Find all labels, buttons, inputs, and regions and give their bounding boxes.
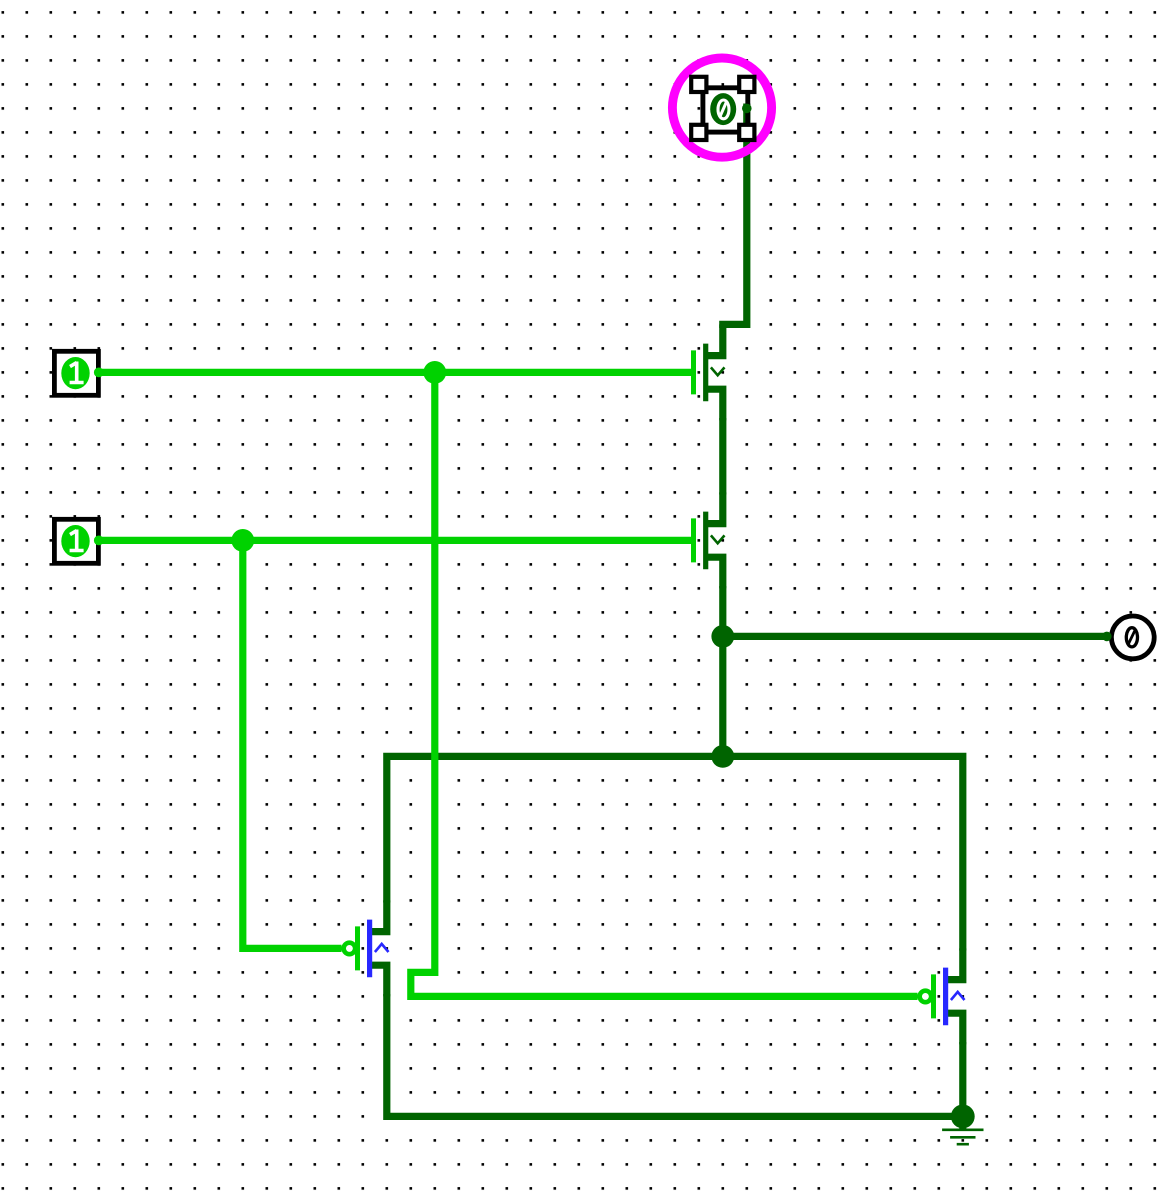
power component pin dot	[742, 104, 752, 114]
power component corner pad bottom-right	[739, 125, 754, 140]
wire input B to T2 gate (value 1, bright green)	[99, 537, 692, 544]
wire T3 drain leg corner	[370, 965, 387, 996]
power component corner pad top-left	[691, 77, 706, 92]
input pin B square	[54, 519, 98, 563]
halo around selected power component	[672, 58, 771, 157]
transistor Q1 channel plate	[703, 344, 708, 402]
wire T2 drain down through output node to lower node	[719, 586, 726, 756]
junction node B on input B wire	[231, 529, 254, 552]
wire output node to output pin	[723, 633, 1107, 640]
input pin A glyph 1	[70, 362, 84, 383]
wire from node A down and across to T4 gate	[411, 372, 918, 996]
transistor Q2 channel plate	[703, 512, 708, 570]
power component value glyph 0	[718, 100, 729, 119]
wire from power pin down to VDD corner (net 0, dark green)	[719, 104, 747, 325]
wire T1 drain to T2 source	[719, 418, 726, 495]
wire lower rail: right drop, horizontal, left drop to T3 source	[387, 756, 963, 950]
wire input A to T1 gate (value 1, bright green)	[99, 369, 692, 376]
transistor Q1 gate plate	[691, 350, 696, 394]
ground symbol	[942, 1116, 983, 1144]
junction lower node	[711, 745, 734, 768]
transistor Q1 chevron	[711, 367, 725, 375]
output pin glyph 0	[1126, 628, 1137, 647]
input pin A value oval	[61, 357, 89, 389]
wire T3 source leg corner	[370, 900, 387, 931]
wire T2 drain leg corner	[706, 557, 723, 588]
input pin A connection dot	[94, 368, 104, 378]
input pin B value oval	[61, 525, 89, 557]
transistor Q4 chevron	[951, 992, 965, 1000]
wire T1 source leg corner	[706, 324, 723, 355]
power component corner pad bottom-left	[691, 125, 706, 140]
wire T4 source leg corner	[946, 948, 963, 979]
input pin B glyph 1	[70, 530, 84, 551]
junction output node	[711, 625, 734, 648]
transistor Q3 channel plate	[367, 920, 372, 978]
transistor Q2 chevron	[711, 535, 725, 543]
wire from node B down and across to T3 gate	[243, 540, 342, 948]
power component corner pad top-right	[739, 77, 754, 92]
transistor Q3 gate bubble	[344, 943, 356, 955]
wire T3 drain down and bottom rail to ground junction	[387, 994, 963, 1116]
transistor Q2 gate plate	[691, 518, 696, 562]
transistor Q4 gate bubble	[920, 991, 932, 1003]
transistor Q4 gate plate	[931, 974, 936, 1018]
wire T1 drain leg corner	[706, 389, 723, 420]
wire T4 drain leg corner	[946, 1013, 963, 1044]
power component V1 frame	[703, 88, 748, 132]
input pin B connection dot	[94, 536, 104, 546]
output pin connection dot	[1102, 632, 1112, 642]
power component value oval (0)	[710, 93, 736, 125]
junction node A on input A wire	[423, 361, 446, 384]
input pin A square	[54, 351, 98, 395]
transistor Q3 gate plate	[355, 926, 360, 970]
junction ground node	[951, 1105, 975, 1129]
output pin circle	[1111, 616, 1154, 659]
wire T2 source leg corner	[706, 492, 723, 523]
wire T4 drain down to ground junction	[959, 1042, 966, 1116]
transistor Q4 channel plate	[943, 968, 948, 1026]
transistor Q3 chevron	[375, 944, 389, 952]
